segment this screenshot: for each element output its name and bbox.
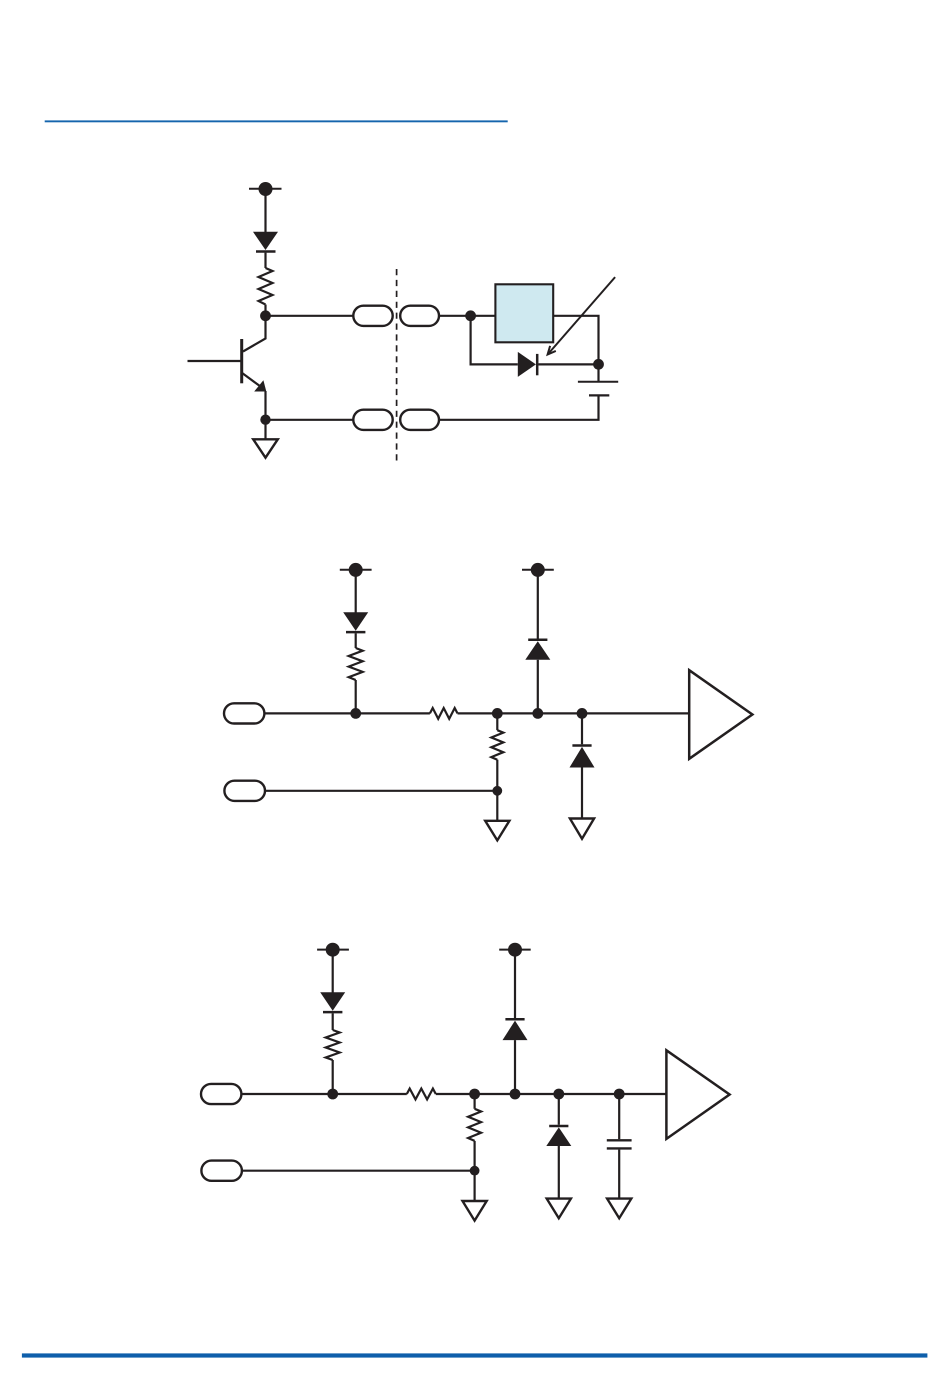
wire node to clamp diode D8 <box>558 1094 560 1125</box>
ground GND5 <box>547 1199 571 1219</box>
wire D7 to input rail <box>514 1040 516 1094</box>
buffer U2 <box>666 1050 729 1139</box>
node clamp junction <box>510 1089 521 1100</box>
connector pin 5 <box>201 1084 241 1104</box>
node collector junction <box>260 310 271 321</box>
diode D6 (cathode down) <box>320 992 345 1012</box>
wire divider node to R4 <box>496 713 498 730</box>
resistor R3 series <box>430 708 458 719</box>
wire C1 to ground <box>618 1150 620 1199</box>
node battery + <box>593 359 604 370</box>
wire divider node to R7 <box>474 1094 476 1109</box>
wire pin1 to node A <box>439 315 495 317</box>
clamp diode D7 (anode down) <box>503 1019 528 1040</box>
relay coil box <box>495 284 553 342</box>
node pull-up junction <box>350 708 361 719</box>
wire battery to bottom rail <box>439 396 599 419</box>
wire D1 to R1 <box>264 253 266 268</box>
resistor R7 pull-down <box>468 1109 481 1141</box>
flyback diode D2 <box>518 352 537 377</box>
connector pin 1 (left half) <box>353 306 392 326</box>
clamp diode D5 (anode down) <box>570 746 595 768</box>
resistor R5 series <box>407 1089 436 1100</box>
wire VCC to diode D3 <box>355 570 357 613</box>
wire D2 to battery node <box>538 363 598 365</box>
clamp diode D4 (anode down) <box>525 640 550 660</box>
wire pin2 to emitter node <box>266 419 354 421</box>
resistor R2 pull-up <box>349 648 363 680</box>
wire return node to ground <box>474 1171 476 1201</box>
wire pin3 to series resistor <box>264 712 430 714</box>
wire collector node to connector pin 1 <box>266 315 354 317</box>
connector pin 2 (right half) <box>400 410 439 430</box>
wire pin6 to return node <box>242 1170 475 1172</box>
resistor R4 pull-down <box>491 730 503 760</box>
power node VCC left <box>340 563 372 577</box>
connector pin 4 <box>224 781 265 801</box>
wire node to clamp diode D5 <box>581 713 583 744</box>
transistor Q1 emitter <box>242 373 266 392</box>
footer rule <box>22 1353 928 1357</box>
power node VCC top <box>249 182 282 196</box>
buffer U1 <box>689 670 752 759</box>
node A junction <box>465 310 476 321</box>
wire pin4 to return node <box>265 790 497 792</box>
transistor Q1 base bar <box>240 339 243 383</box>
wire D4 to input rail <box>537 660 539 714</box>
wire R4 to return node <box>496 760 498 791</box>
wire return node to ground <box>496 791 498 821</box>
connector pin 6 <box>201 1161 242 1181</box>
resistor R1 <box>259 268 273 305</box>
wire VCC to clamp diode D4 <box>537 570 539 639</box>
wire R7 to return node <box>474 1141 476 1171</box>
power node VCC left <box>317 943 349 957</box>
node clamp-low junction <box>577 708 588 719</box>
node return junction <box>470 1166 480 1176</box>
annotation arrow to flyback diode <box>548 277 616 354</box>
wire node A down to flyback diode <box>471 316 518 365</box>
wire relay box to right rail <box>553 316 598 365</box>
resistor R6 pull-up <box>326 1030 340 1060</box>
battery <box>578 382 618 396</box>
transistor Q1 base wire <box>188 360 242 362</box>
ground GND2 <box>485 821 509 841</box>
node clamp-low junction <box>553 1089 564 1100</box>
wire VCC to diode D1 <box>264 189 266 232</box>
node pull-up junction <box>327 1089 338 1100</box>
connector pin 2 (left half) <box>353 410 392 430</box>
transistor Q1 collector <box>243 316 266 352</box>
wire R2 to input rail <box>355 680 357 713</box>
node clamp junction <box>532 708 543 719</box>
wire node to capacitor C1 <box>618 1094 620 1139</box>
node divider junction <box>492 708 503 719</box>
wire emitter to node <box>264 391 266 420</box>
node return junction <box>492 786 502 796</box>
header rule <box>45 120 508 122</box>
ground GND4 <box>463 1201 487 1221</box>
wire R3 to buffer <box>458 712 690 714</box>
connector pin 1 (right half) <box>400 306 439 326</box>
wire R5 to buffer <box>436 1093 667 1095</box>
ground GND1 <box>253 439 278 457</box>
wire D3 to R2 <box>355 633 357 648</box>
wire R1 to collector node <box>264 305 266 316</box>
wire VCC to diode D6 <box>332 950 334 993</box>
diode D3 (cathode down) <box>343 612 368 632</box>
wire D6 to R6 <box>332 1013 334 1030</box>
power node VCC right <box>499 943 531 957</box>
wire pin5 to series resistor <box>241 1093 406 1095</box>
connector pin 3 <box>224 703 264 723</box>
wire D5 to ground <box>581 768 583 819</box>
node filter junction <box>614 1089 625 1100</box>
node emitter junction <box>260 415 270 425</box>
wire R6 to input rail <box>332 1060 334 1094</box>
ground GND6 <box>607 1199 631 1219</box>
power node VCC right <box>522 563 554 577</box>
isolation dashed line <box>396 269 398 461</box>
wire D8 to ground <box>558 1146 560 1199</box>
ground GND3 <box>570 819 594 839</box>
wire battery node to battery <box>597 364 599 381</box>
capacitor C1 <box>607 1140 632 1148</box>
clamp diode D8 (anode down) <box>546 1126 571 1146</box>
wire node to ground <box>264 420 266 440</box>
diode D1 (LED, cathode down) <box>253 232 278 252</box>
node divider junction <box>469 1089 480 1100</box>
wire VCC to clamp diode D7 <box>514 950 516 1019</box>
